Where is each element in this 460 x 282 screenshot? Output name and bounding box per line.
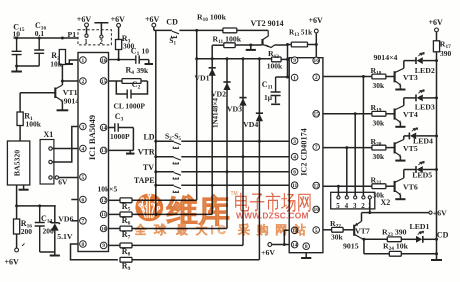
IC BA5320 xyxy=(7,141,29,185)
resistor R18 xyxy=(372,74,386,79)
LED LED1 xyxy=(422,236,424,243)
node VTR column xyxy=(242,155,245,158)
wire C2 right branch xyxy=(131,81,148,94)
wire R5 row xyxy=(132,199,197,201)
svg-text:5: 5 xyxy=(336,202,340,210)
wire IC2 to R21 xyxy=(323,185,372,187)
wire VT5 collector xyxy=(403,136,405,140)
X2 contact 5 xyxy=(337,196,340,199)
IC U2 IC2 CD40174 xyxy=(289,58,323,253)
transistor VT6 xyxy=(394,181,396,192)
switch TV row xyxy=(156,171,174,173)
IC2 pin 14 xyxy=(291,241,298,248)
node riser R21 xyxy=(337,185,340,188)
resistor R23 xyxy=(387,237,401,242)
svg-text:1000P: 1000P xyxy=(110,132,130,141)
switch TAPE row xyxy=(156,184,174,186)
wire CD to R10 xyxy=(179,29,223,31)
wire X1-1 to pin4 xyxy=(52,148,78,150)
node X2 pin1 +6V xyxy=(368,211,371,214)
node VT1 collector xyxy=(61,80,64,83)
svg-text:100k: 100k xyxy=(26,120,42,129)
ground VT4 xyxy=(395,125,405,127)
IC1 pin 14 xyxy=(100,124,107,131)
wire IC2 to R19 xyxy=(323,113,372,115)
svg-text:30k: 30k xyxy=(373,152,386,161)
wire R24 to gnd xyxy=(401,253,436,255)
IC1 pin 15 xyxy=(100,78,107,85)
wire collector to LED2 xyxy=(404,60,416,62)
wire IC2 to R20 xyxy=(323,147,372,149)
antenna bar P1-2 xyxy=(94,23,108,35)
svg-text:I: I xyxy=(211,225,214,237)
IC2 pin 10 xyxy=(313,206,320,213)
svg-text:14: 14 xyxy=(292,242,298,248)
terminal +6V R17 xyxy=(435,28,439,32)
wire VT3 collector xyxy=(403,61,405,69)
svg-text:1: 1 xyxy=(293,75,296,81)
transistor VT1 xyxy=(54,88,56,99)
svg-text:5: 5 xyxy=(82,175,85,181)
node rail LED3 xyxy=(435,96,438,99)
wire R1 to BA5320 xyxy=(19,126,21,142)
IC2 pin 12 xyxy=(313,182,320,189)
svg-text:LED4: LED4 xyxy=(413,137,433,146)
node VT7 emitter xyxy=(362,238,365,241)
wire R18 to VT3 xyxy=(386,76,395,78)
svg-text:TAPE: TAPE xyxy=(134,176,155,185)
transistor VT7 xyxy=(353,225,355,236)
watermark logo circle xyxy=(135,191,311,237)
wire VD3 column xyxy=(242,59,244,246)
svg-text:7: 7 xyxy=(315,145,318,151)
svg-text:8: 8 xyxy=(82,242,85,248)
wire +6V to pin16 xyxy=(315,33,317,58)
wire C14 VD6 bottom xyxy=(40,251,55,253)
svg-text:R10 100k: R10 100k xyxy=(197,13,227,24)
svg-text:1: 1 xyxy=(82,58,85,64)
wire R11 left xyxy=(212,44,224,46)
LED LED3 xyxy=(415,95,417,102)
capacitor C14 xyxy=(35,206,45,252)
wire VT7 to node xyxy=(362,212,370,214)
capacitor C16 xyxy=(34,38,44,66)
diode VD4 xyxy=(256,112,263,114)
resistor R12 xyxy=(272,57,282,62)
node gnd corner xyxy=(435,252,438,255)
node rail LED1 xyxy=(435,238,438,241)
IC1 pin 16 xyxy=(100,57,107,64)
svg-text:VD3: VD3 xyxy=(227,105,242,114)
diode VD3 xyxy=(239,97,246,99)
resistor R5 xyxy=(120,198,132,203)
wire X2 pin1 down xyxy=(369,199,371,213)
wire LED5 to rail xyxy=(423,169,437,171)
IC2 pin 11 xyxy=(291,182,298,189)
wire R13 to +6V xyxy=(308,44,317,46)
wire R7 row xyxy=(132,228,227,230)
node +6V split xyxy=(283,243,286,246)
wire terminal to P1-1 xyxy=(86,27,88,34)
wire IC2 gnd stub xyxy=(305,253,307,256)
X2 contact 4 xyxy=(345,196,348,199)
node bus R6 xyxy=(154,213,157,216)
IC1 pin 12 xyxy=(100,197,107,204)
wire R12 to pin9 xyxy=(281,58,289,60)
node rail x196.7 xyxy=(195,57,198,60)
wire to pin1 xyxy=(288,76,290,78)
IC2 pin 4 xyxy=(291,153,298,160)
svg-text:VT6: VT6 xyxy=(403,183,418,192)
diode VD2 xyxy=(223,81,230,83)
capacitor C1 xyxy=(109,55,149,63)
svg-text:16: 16 xyxy=(101,58,107,64)
IC2 pin 13 xyxy=(291,227,298,234)
svg-text:5: 5 xyxy=(315,228,318,234)
wire R13 node down xyxy=(287,45,289,78)
svg-text:2: 2 xyxy=(82,79,85,85)
resistor R13 xyxy=(291,42,307,47)
capacitor C11 bottom bar xyxy=(271,103,280,105)
ground VD6 xyxy=(50,252,60,256)
LED LED4 xyxy=(408,133,410,140)
resistor R21 xyxy=(372,184,386,189)
svg-text:9014×4: 9014×4 xyxy=(374,53,398,62)
svg-text:IC2 CD40174: IC2 CD40174 xyxy=(300,128,309,176)
connector X2 xyxy=(331,192,375,209)
wire supply node xyxy=(17,205,56,207)
IC1 pin 10 xyxy=(100,225,107,232)
wire LED3 to rail xyxy=(423,97,437,99)
svg-text:15: 15 xyxy=(101,79,107,85)
wire X2 pin5 riser xyxy=(337,186,339,196)
svg-text:+6V: +6V xyxy=(77,15,92,24)
IC1 pin 3 xyxy=(80,123,87,130)
node rail x227 xyxy=(226,57,229,60)
svg-text:13: 13 xyxy=(101,148,107,154)
node LD column xyxy=(258,140,261,143)
wire VD4 column xyxy=(258,59,260,260)
transistor VT2 xyxy=(261,39,263,45)
wire TV to IC2 pin 6 xyxy=(181,171,289,173)
wire C2 left branch xyxy=(116,81,127,94)
node +6V R13 xyxy=(315,43,318,46)
IC1 pin 11 xyxy=(100,211,107,218)
terminal +6V right xyxy=(429,211,432,214)
node R3 pin16 xyxy=(117,58,120,61)
svg-text:VT2 9014: VT2 9014 xyxy=(251,19,284,28)
ground VT6 xyxy=(395,197,405,199)
wire R21 to VT6 xyxy=(386,185,395,187)
wire node to R16 xyxy=(16,206,18,219)
svg-text:+6V: +6V xyxy=(145,15,160,24)
watermark slogan 全球最大IC采购网站 xyxy=(135,224,146,235)
wire VT3 emitter xyxy=(399,85,401,88)
terminal +6V S1 xyxy=(152,23,156,27)
wire VT5 emitter xyxy=(399,156,401,159)
IC2 pin 16 xyxy=(313,57,320,64)
resistor R3 xyxy=(116,40,122,50)
wire +6V to R3 xyxy=(118,27,120,39)
ground VT3 xyxy=(395,88,405,90)
svg-text:10: 10 xyxy=(142,47,150,56)
IC2 pin 9 xyxy=(291,57,298,64)
switch S1 xyxy=(154,29,172,31)
X1 contact 3 xyxy=(49,176,52,179)
svg-text:+6V: +6V xyxy=(309,16,324,25)
wire R23 to LED1 xyxy=(401,238,416,240)
resistor R4 xyxy=(122,79,141,84)
terminal +6V bottom-middle xyxy=(268,243,272,247)
svg-text:VD1: VD1 xyxy=(194,74,209,83)
wire collector stub xyxy=(61,81,63,85)
svg-text:1μ: 1μ xyxy=(264,93,273,102)
wire VT7 top xyxy=(361,213,363,222)
wire IC2 to R18 xyxy=(323,76,372,78)
IC1 pin 9 xyxy=(100,242,107,249)
X2 contact 3 xyxy=(354,196,357,199)
wire VT6 collector xyxy=(403,170,405,179)
node R2 top xyxy=(61,37,64,40)
svg-text:VD4: VD4 xyxy=(243,120,258,129)
svg-text:2: 2 xyxy=(361,202,365,210)
svg-text:390: 390 xyxy=(440,49,452,58)
wire collector to LED4 xyxy=(404,135,410,137)
svg-text:BA5320: BA5320 xyxy=(13,150,22,177)
svg-text:C: C xyxy=(218,225,226,237)
wire BA5320 gnd stub xyxy=(23,185,25,188)
wire pin11 stub xyxy=(109,213,121,215)
IC1 pin 8 xyxy=(80,241,87,248)
node pin9 xyxy=(286,58,289,61)
wire VT6 emitter xyxy=(399,195,401,198)
svg-text:39k: 39k xyxy=(137,66,150,75)
node C14 top xyxy=(38,204,41,207)
wire VT7 emitter xyxy=(362,237,364,240)
svg-text:1: 1 xyxy=(84,38,88,46)
wire VT1 base xyxy=(20,92,55,94)
connector P1 dashed box xyxy=(78,30,111,45)
node rail x259.4 xyxy=(258,57,261,60)
resistor R1 xyxy=(17,112,23,126)
node rail LED2 xyxy=(435,59,438,62)
IC2 pin 3 xyxy=(291,138,298,145)
wire X1-2 to pin3 xyxy=(52,127,78,163)
transistor VT5 xyxy=(394,142,396,153)
capacitor C15 xyxy=(12,38,22,66)
svg-text:LED3: LED3 xyxy=(415,102,435,111)
LED LED2 xyxy=(415,57,417,64)
svg-text:15: 15 xyxy=(314,112,320,118)
wire +6V top-left rail xyxy=(14,37,79,39)
wire to R24 xyxy=(364,253,389,255)
wire node to VD6 xyxy=(54,206,56,222)
node C15 top xyxy=(15,37,18,40)
svg-text:3: 3 xyxy=(293,139,296,145)
IC1 pin 5 xyxy=(80,174,87,181)
svg-text:30k: 30k xyxy=(373,118,386,127)
wire VD1 column xyxy=(211,45,213,214)
wire VT4 emitter xyxy=(399,122,401,125)
wire terminal down xyxy=(153,27,155,30)
node riser R19 xyxy=(354,112,357,115)
node R16 top xyxy=(15,204,18,207)
resistor R9 xyxy=(120,257,132,262)
wire pin12 stub xyxy=(109,199,121,201)
ground VT5 xyxy=(395,159,405,161)
node bus LD xyxy=(154,140,157,143)
wire node to IC1 pin2 xyxy=(62,80,78,82)
svg-text:5.1V: 5.1V xyxy=(57,232,73,241)
svg-text:16: 16 xyxy=(314,58,320,64)
wire R11 to base xyxy=(235,44,261,46)
capacitor C3 xyxy=(109,123,134,131)
svg-text:VD2: VD2 xyxy=(211,90,226,99)
wire LD to IC2 pin 3 xyxy=(181,140,289,142)
svg-text:10k: 10k xyxy=(50,60,63,69)
node riser R20 xyxy=(345,146,348,149)
svg-text:12: 12 xyxy=(101,198,107,204)
svg-text:200: 200 xyxy=(21,227,33,236)
svg-text:7: 7 xyxy=(82,219,85,225)
X2 contact 2 xyxy=(362,196,365,199)
ground bottom-right xyxy=(431,254,442,260)
svg-text:LD: LD xyxy=(143,132,154,141)
node bus TV xyxy=(154,170,157,173)
node base gnd xyxy=(249,44,252,47)
svg-text:200: 200 xyxy=(43,227,55,236)
wire VT2 emitter xyxy=(275,44,288,46)
wire R6 row xyxy=(132,213,212,215)
wire pin8 to R9 row xyxy=(71,244,118,260)
wire cap bottoms xyxy=(17,65,40,67)
wire pin11 stub xyxy=(109,244,121,246)
svg-text:TV: TV xyxy=(143,163,154,172)
node bus TAPE xyxy=(154,184,157,187)
wire pin10 stub xyxy=(109,228,121,230)
svg-text:2: 2 xyxy=(99,38,103,46)
svg-text:+6V: +6V xyxy=(429,18,444,27)
wire to +6V right xyxy=(370,212,429,214)
wire pin7 stub xyxy=(71,220,78,222)
diode VD1 xyxy=(209,67,216,69)
svg-text:3: 3 xyxy=(353,202,357,210)
resistor R22 xyxy=(332,227,344,232)
wire X2 pin2 riser xyxy=(362,77,364,196)
wire R10 to VT2 collector xyxy=(237,29,268,31)
X1 contact 2 xyxy=(49,160,52,163)
resistor R8 xyxy=(120,243,132,248)
svg-text:11: 11 xyxy=(101,212,106,218)
IC2 pin 5 xyxy=(313,227,320,234)
node riser R18 xyxy=(362,75,365,78)
svg-text:R23 390: R23 390 xyxy=(382,228,407,239)
IC2 pin 1 xyxy=(291,74,298,81)
ground IC1 pin1 xyxy=(66,62,73,65)
terminal +6V IC2 xyxy=(314,29,318,33)
wire LED4 to rail xyxy=(416,135,436,137)
resistor R2 xyxy=(59,50,65,65)
svg-text:10: 10 xyxy=(13,30,21,39)
svg-text:9014: 9014 xyxy=(64,97,80,106)
terminal +6V bottom-left xyxy=(15,248,19,252)
resistor R20 xyxy=(372,145,386,150)
svg-text:VTR: VTR xyxy=(138,148,155,157)
svg-text:10: 10 xyxy=(314,207,320,213)
wire LED2 to rail xyxy=(423,60,437,62)
svg-text:WWW.DZSC.COM: WWW.DZSC.COM xyxy=(236,210,309,220)
wire collector to LED3 xyxy=(404,97,416,99)
capacitor C11 xyxy=(271,77,281,103)
svg-text:6V: 6V xyxy=(58,178,68,187)
node bus VTR xyxy=(154,155,157,158)
wire C3 to pin13 row xyxy=(132,128,134,151)
terminal +6V P1-1 xyxy=(85,23,89,27)
svg-text:IC1 BA5049: IC1 BA5049 xyxy=(87,115,97,160)
IC1 pin 13 xyxy=(100,147,107,154)
ground VT2 base xyxy=(246,45,256,50)
svg-text:+6V: +6V xyxy=(111,15,126,24)
tick at terminal xyxy=(22,244,25,247)
svg-text:LED2: LED2 xyxy=(415,66,435,75)
svg-text:9: 9 xyxy=(293,58,296,64)
wire R22 to VT7 base xyxy=(343,229,354,231)
svg-text:1N4148×4: 1N4148×4 xyxy=(211,97,219,128)
ground pin13 xyxy=(126,150,134,153)
X1 contact 4 xyxy=(55,176,58,179)
wire R19 to VT4 xyxy=(386,113,395,115)
wire X2 pin4 riser xyxy=(346,148,348,196)
wire R9 row xyxy=(132,259,259,261)
watermark 电子市场网 xyxy=(235,193,249,212)
wire VD6 down xyxy=(54,231,56,252)
IC2 pin 7 xyxy=(313,144,320,151)
terminal +6V R3 xyxy=(117,23,121,27)
node rail x243 xyxy=(242,57,245,60)
svg-text:2: 2 xyxy=(315,75,318,81)
svg-text:8: 8 xyxy=(305,244,308,250)
X1 contact 1 xyxy=(49,147,52,150)
P1 contact 2 xyxy=(100,35,103,38)
svg-text:LED1: LED1 xyxy=(410,222,430,231)
IC2 pin 15 xyxy=(313,111,320,118)
svg-text:30k: 30k xyxy=(331,233,344,242)
wire X1-3 to pin5 xyxy=(59,177,79,179)
wire R3 down xyxy=(118,50,120,60)
resistor R24 xyxy=(389,251,401,256)
svg-text:4: 4 xyxy=(345,202,349,210)
svg-text:3: 3 xyxy=(82,124,85,130)
svg-text:CL 1000P: CL 1000P xyxy=(114,102,146,111)
svg-text:4: 4 xyxy=(293,155,296,161)
svg-text:9: 9 xyxy=(102,243,105,249)
connector X1 xyxy=(40,140,54,185)
wire pin6 stub xyxy=(71,199,78,201)
svg-text:10k×5: 10k×5 xyxy=(98,185,118,194)
wire VTR to IC2 pin 4 xyxy=(181,156,289,158)
svg-text:+6V: +6V xyxy=(5,258,20,267)
wire +6V to pin14 xyxy=(272,244,290,246)
IC1 pin 2 xyxy=(80,78,87,85)
node cap ground xyxy=(15,65,18,68)
wire VT4 collector xyxy=(403,98,405,106)
wire +6V bus xyxy=(155,30,157,214)
node pin1 xyxy=(286,76,289,79)
resistor R6 xyxy=(120,212,132,217)
ground BA5320 xyxy=(19,188,29,190)
svg-text:VD6: VD6 xyxy=(58,215,73,224)
transistor VT4 xyxy=(394,109,396,120)
